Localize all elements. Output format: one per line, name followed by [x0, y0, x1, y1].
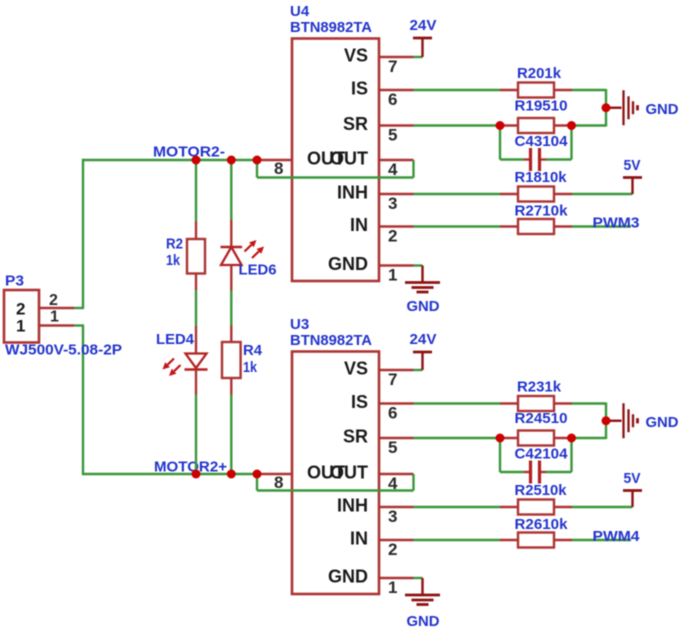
svg-text:2: 2	[388, 227, 397, 246]
wire GND pin	[414, 266, 423, 283]
svg-text:1: 1	[388, 266, 397, 285]
wire rail to LED6	[230, 160, 232, 220]
svg-text:R2610k: R2610k	[515, 516, 569, 533]
svg-text:LED6: LED6	[239, 262, 277, 279]
svg-text:WJ500V-5.08-2P: WJ500V-5.08-2P	[5, 342, 122, 359]
junction (GND tee)	[602, 103, 611, 112]
wire IN to R27	[414, 225, 501, 227]
svg-text:6: 6	[388, 404, 397, 423]
U3 pin 6 (IS)	[351, 392, 414, 423]
wire MOTOR2+ rail	[83, 473, 258, 475]
U4 pin 6 (IS)	[351, 79, 414, 110]
junction (GND tee)	[602, 416, 611, 425]
svg-text:3: 3	[388, 507, 397, 526]
wire IS right	[572, 402, 606, 404]
svg-text:R2510k: R2510k	[515, 482, 568, 499]
svg-text:24V: 24V	[410, 17, 437, 34]
svg-text:8: 8	[274, 159, 283, 178]
wire right vertical (IS to SR)	[605, 403, 607, 440]
wire rail to R2	[195, 160, 197, 222]
power 5V	[623, 491, 642, 508]
resistor R24	[500, 431, 572, 446]
svg-text:BTN8982TA: BTN8982TA	[290, 19, 372, 36]
wire left rail lower	[82, 326, 84, 476]
svg-text:BTN8982TA: BTN8982TA	[290, 332, 372, 349]
U4 pin 5 (SR)	[343, 114, 414, 145]
LED LED6	[221, 220, 243, 291]
svg-text:R1810k: R1810k	[515, 169, 568, 186]
wire IS right	[572, 89, 606, 91]
U4 pin name OUT (pins 8 and 4)	[307, 149, 368, 169]
svg-text:R2: R2	[166, 236, 183, 253]
wire GND pin	[414, 578, 423, 595]
wire GND stub	[606, 420, 622, 422]
svg-text:INH: INH	[337, 183, 368, 203]
svg-text:IN: IN	[350, 529, 368, 549]
wire LED4 to rail	[195, 395, 197, 475]
svg-text:IS: IS	[351, 392, 368, 412]
capacitor C43	[524, 148, 546, 171]
svg-text:7: 7	[388, 57, 397, 76]
U3 pin 2 (IN)	[350, 529, 414, 560]
U3 pin name OUT (pins 8 and 4)	[307, 463, 368, 483]
wire IN to PWM3	[572, 225, 631, 227]
svg-text:8: 8	[274, 473, 283, 492]
resistor R25	[500, 500, 572, 515]
wire IS to R23	[414, 402, 501, 404]
resistor R2	[187, 222, 205, 291]
wire SR to R19	[414, 124, 501, 126]
svg-text:IN: IN	[350, 215, 368, 235]
svg-text:GND: GND	[407, 613, 440, 630]
svg-text:C43104: C43104	[515, 133, 569, 150]
svg-text:2: 2	[49, 292, 58, 309]
LED LED4	[185, 326, 208, 395]
resistor R23	[500, 396, 572, 411]
svg-text:5: 5	[388, 438, 397, 457]
svg-text:SR: SR	[343, 114, 368, 134]
U3 pin 3 (INH)	[337, 496, 414, 527]
wire INH to R25	[414, 506, 501, 508]
junction (SR left)	[496, 121, 505, 130]
wire INH to R18	[414, 193, 501, 195]
svg-text:5: 5	[388, 126, 397, 145]
IC U4 BTN8982TA	[292, 39, 379, 282]
wire P3 pin 1 to rail	[74, 324, 84, 326]
power 24V	[413, 352, 432, 370]
wire cap branch left	[500, 438, 524, 472]
svg-text:PWM3: PWM3	[593, 215, 640, 232]
svg-text:P3: P3	[5, 273, 24, 290]
wire VS to 24V	[414, 369, 423, 371]
wire INH to 5V	[572, 193, 633, 195]
junction (SR right)	[567, 121, 576, 130]
svg-text:5V: 5V	[624, 470, 641, 487]
wire cap branch right	[546, 126, 572, 160]
wire SR right	[572, 437, 606, 439]
ground GND (right)	[624, 90, 638, 125]
svg-text:GND: GND	[328, 567, 368, 587]
wire IS to R20	[414, 89, 501, 91]
svg-text:C42104: C42104	[515, 446, 569, 463]
U4 pin 8 (OUT)	[257, 159, 292, 178]
ground GND (bottom)	[405, 283, 440, 293]
resistor R19	[500, 118, 572, 133]
svg-text:MOTOR2-: MOTOR2-	[153, 144, 225, 161]
resistor R18	[500, 187, 572, 202]
svg-text:3: 3	[388, 194, 397, 213]
resistor R4	[222, 326, 241, 395]
wire INH to 5V	[572, 506, 633, 508]
svg-text:MOTOR2+: MOTOR2+	[154, 459, 227, 476]
capacitor C42	[524, 461, 546, 484]
svg-text:VS: VS	[344, 46, 368, 66]
U3 pin 8 (OUT)	[257, 473, 292, 492]
svg-text:VS: VS	[344, 359, 368, 379]
ground GND (bottom)	[405, 595, 440, 605]
P3 pin 2	[16, 292, 74, 319]
wire OUT loop (pin 4 to pin 8)	[257, 160, 414, 178]
svg-text:R19510: R19510	[515, 98, 568, 115]
svg-text:1: 1	[16, 317, 25, 336]
LED4 emission arrows	[163, 359, 181, 377]
junction MOTOR2- x=231.3	[227, 156, 236, 165]
junction (SR left)	[496, 434, 505, 443]
wire VS to 24V	[414, 56, 423, 58]
svg-text:OUT: OUT	[330, 463, 368, 483]
wire IN to R26	[414, 539, 501, 541]
wire SR to R24	[414, 437, 501, 439]
resistor R27	[500, 219, 572, 234]
wire left rail upper	[82, 159, 84, 308]
svg-text:7: 7	[388, 370, 397, 389]
svg-text:IS: IS	[351, 79, 368, 99]
wire cap branch right	[546, 438, 572, 472]
U4 pin 3 (INH)	[337, 183, 414, 214]
junction MOTOR2+ x=196	[192, 470, 201, 479]
svg-text:R2710k: R2710k	[515, 203, 569, 220]
svg-text:GND: GND	[407, 298, 440, 315]
junction MOTOR2+ x=257	[253, 470, 262, 479]
svg-text:1k: 1k	[243, 359, 258, 376]
U4 pin 2 (IN)	[350, 215, 414, 246]
connector P3	[4, 290, 39, 343]
U3 pin 4 (OUT)	[379, 474, 414, 493]
svg-text:GND: GND	[646, 414, 679, 431]
U4 pin 1 (GND)	[328, 254, 414, 285]
svg-text:1: 1	[50, 309, 59, 326]
svg-text:24V: 24V	[410, 331, 437, 348]
U4 pin 7 (VS)	[344, 46, 414, 77]
power 5V	[623, 178, 642, 195]
IC U3 BTN8982TA	[292, 352, 379, 595]
wire GND stub	[606, 107, 622, 109]
resistor R20	[500, 83, 572, 98]
svg-text:SR: SR	[343, 427, 368, 447]
junction MOTOR2- x=196	[192, 156, 201, 165]
U3 pin 5 (SR)	[343, 427, 414, 458]
U4 pin 4 (OUT)	[379, 160, 414, 179]
svg-text:R231k: R231k	[517, 379, 562, 396]
LED6 emission arrows	[245, 240, 265, 258]
svg-text:1k: 1k	[166, 252, 181, 269]
svg-text:6: 6	[388, 90, 397, 109]
wire R4 to rail	[230, 395, 232, 475]
wire R2 to LED4	[195, 290, 197, 326]
svg-text:U3: U3	[290, 316, 309, 333]
svg-text:LED4: LED4	[156, 331, 195, 348]
wire P3 pin 2 to rail	[74, 307, 84, 309]
wire OUT loop (pin 4 to pin 8)	[257, 474, 414, 491]
svg-text:GND: GND	[646, 101, 679, 118]
junction (SR right)	[567, 434, 576, 443]
wire SR right	[572, 124, 606, 126]
U3 pin 7 (VS)	[344, 359, 414, 390]
svg-text:U4: U4	[290, 3, 310, 20]
svg-text:PWM4: PWM4	[593, 528, 641, 545]
wire IN to PWM4	[572, 539, 631, 541]
ground GND (right)	[624, 403, 638, 438]
svg-text:4: 4	[388, 160, 398, 179]
wire LED6 to R4	[230, 291, 232, 326]
svg-text:GND: GND	[328, 254, 368, 274]
wire right vertical (IS to SR)	[605, 89, 607, 127]
junction MOTOR2+ x=231.3	[227, 470, 236, 479]
svg-text:2: 2	[388, 540, 397, 559]
svg-text:5V: 5V	[624, 157, 641, 174]
wire MOTOR2- rail	[83, 159, 258, 161]
power 24V	[413, 38, 432, 57]
svg-text:R24510: R24510	[515, 410, 568, 427]
svg-text:R201k: R201k	[517, 65, 562, 82]
wire cap branch left	[500, 126, 524, 160]
svg-text:INH: INH	[337, 496, 368, 516]
svg-text:OUT: OUT	[330, 149, 368, 169]
svg-text:R4: R4	[243, 342, 263, 359]
junction MOTOR2- x=257	[253, 156, 262, 165]
P3 pin 1	[16, 309, 74, 336]
resistor R26	[500, 533, 572, 548]
svg-text:1: 1	[388, 578, 397, 597]
U3 pin 1 (GND)	[328, 567, 414, 598]
